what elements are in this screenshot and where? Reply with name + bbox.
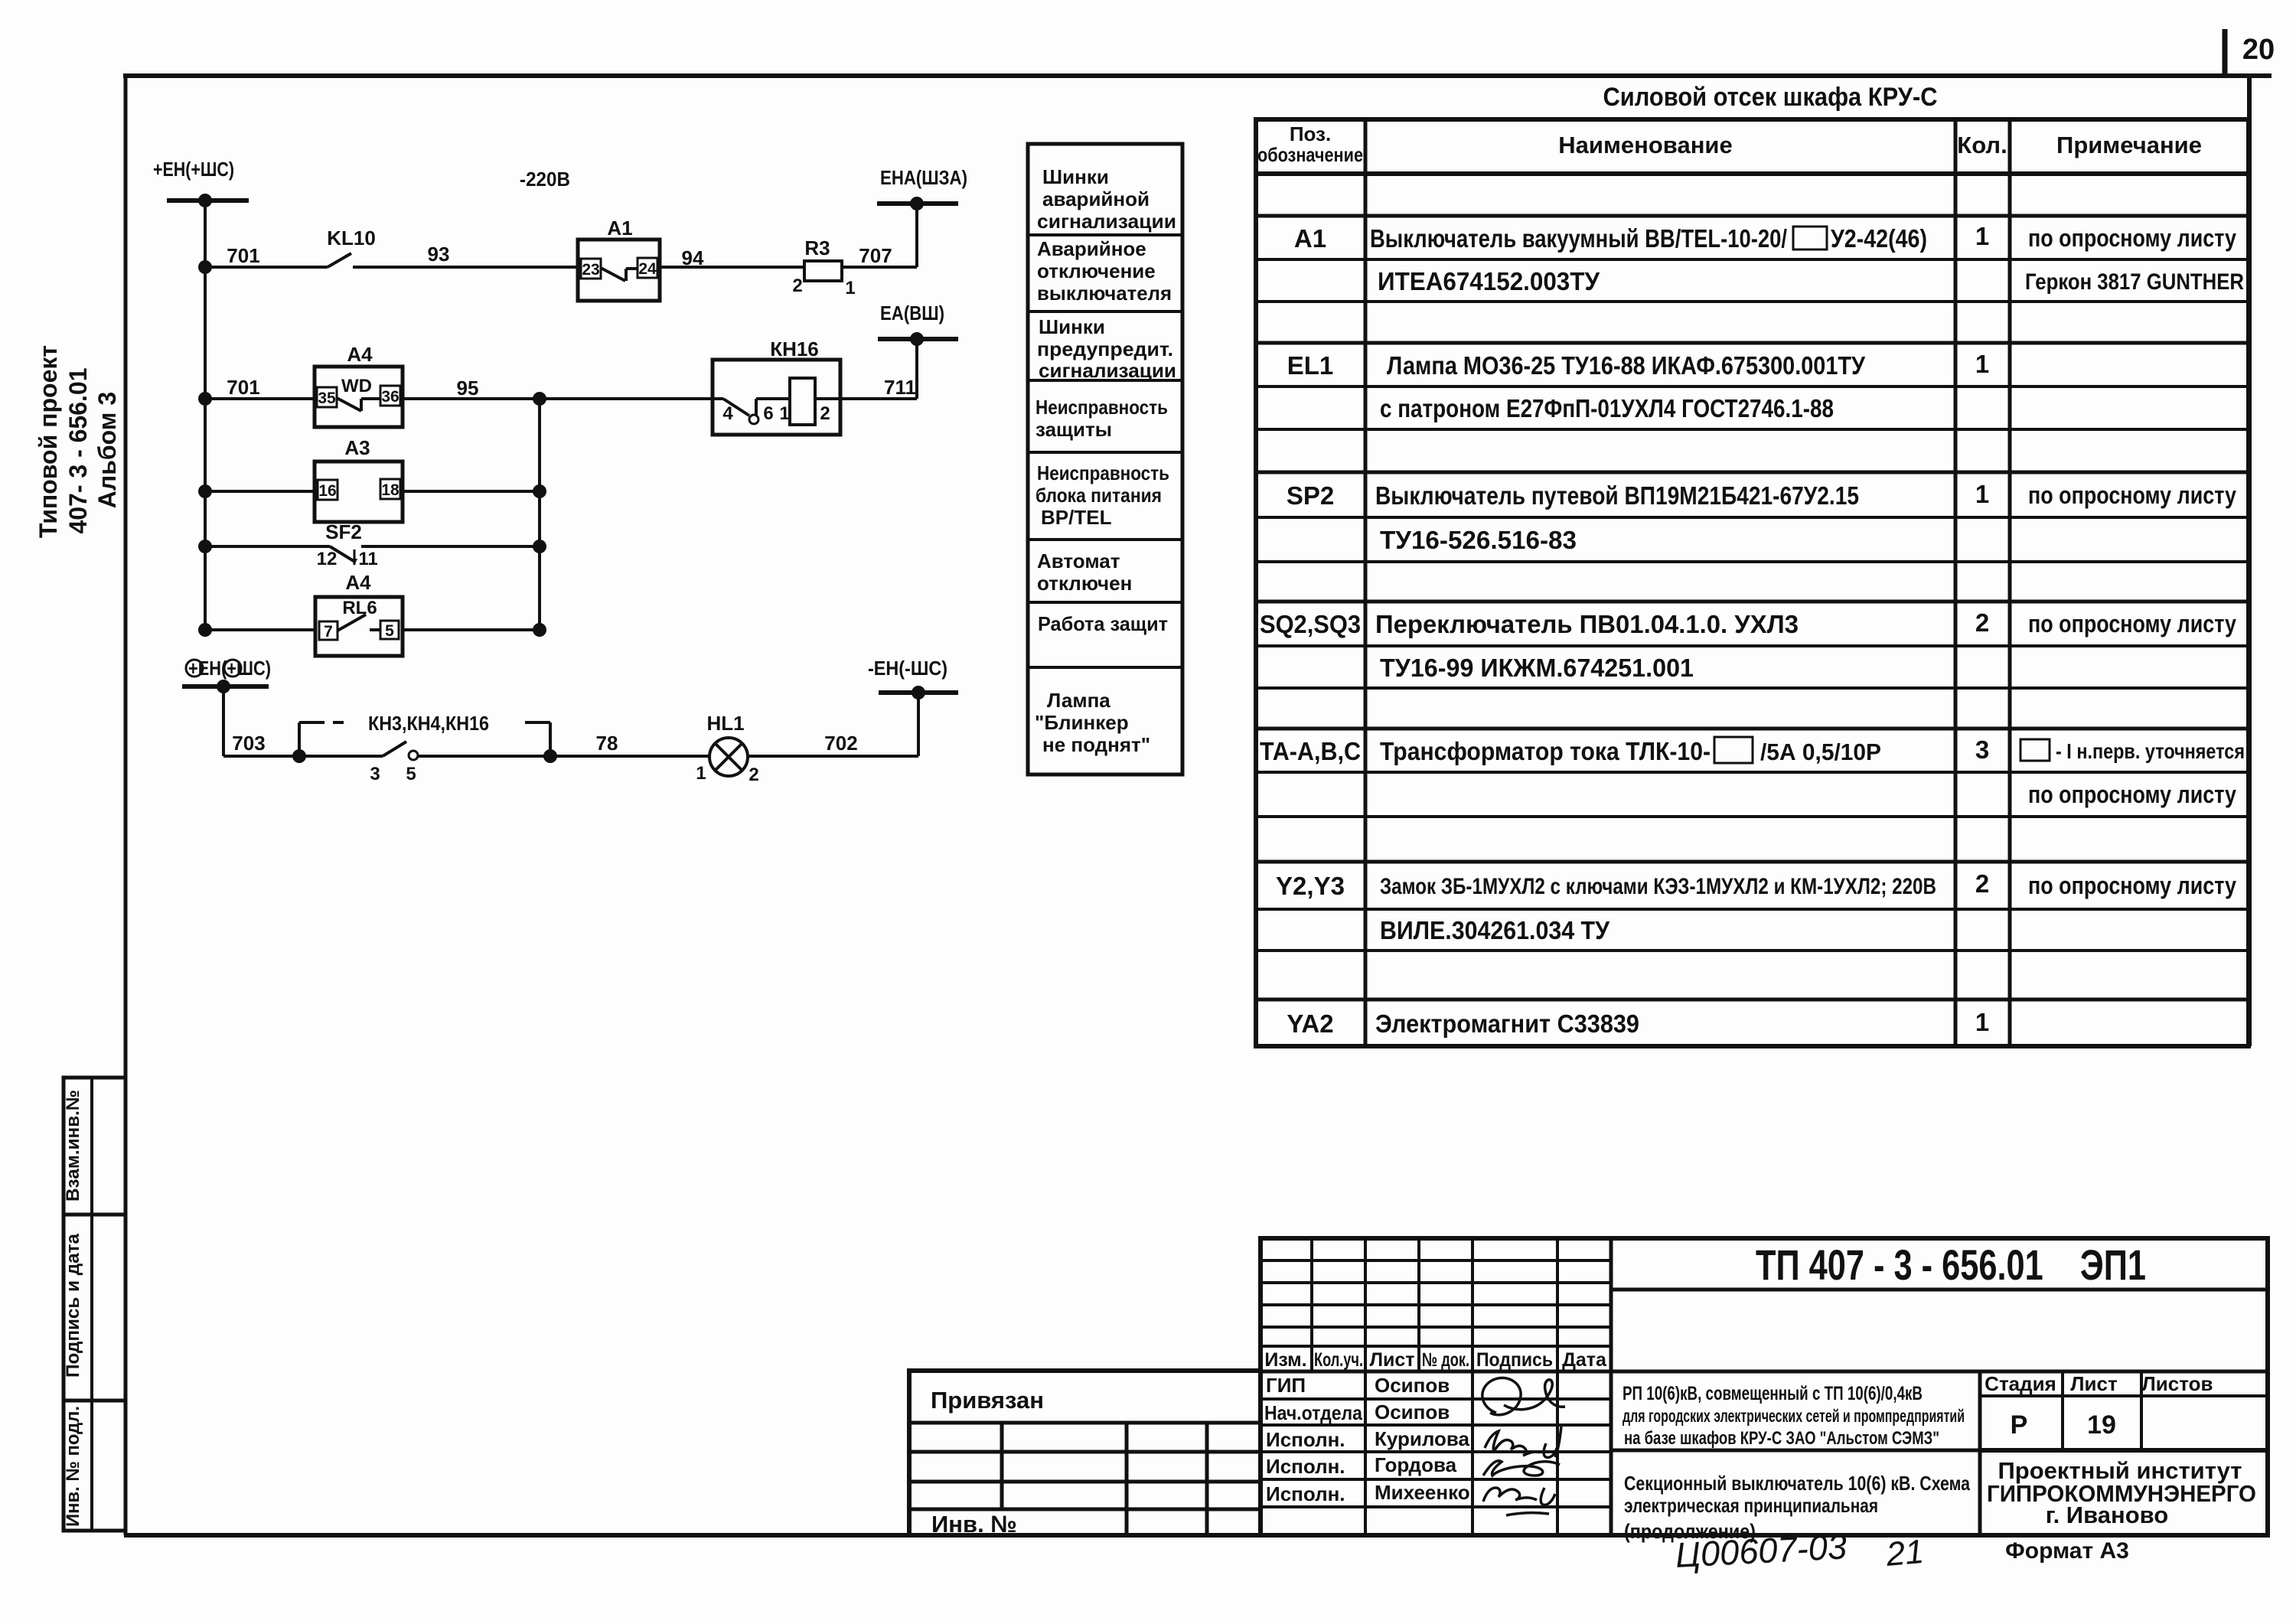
svg-text:BP/TEL: BP/TEL [1041, 506, 1112, 529]
header texts [1257, 122, 2202, 166]
svg-text:16: 16 [318, 482, 336, 500]
svg-text:36: 36 [381, 388, 399, 406]
svg-text:4: 4 [722, 403, 733, 424]
svg-text:23: 23 [582, 261, 599, 279]
svg-text:защиты: защиты [1035, 418, 1112, 441]
revision header row [1264, 1349, 1607, 1371]
legend cell 6 [1037, 549, 1132, 595]
wire riser to ЕНА bus [915, 204, 918, 267]
svg-text:19: 19 [2087, 1410, 2116, 1440]
bottom border [124, 1533, 2269, 1538]
wire 701 row1 [205, 266, 328, 269]
svg-text:SQ2,SQ3: SQ2,SQ3 [1260, 610, 1361, 638]
svg-text:сигнализации: сигнализации [1039, 359, 1176, 382]
svg-text:ТА-А,В,С: ТА-А,В,С [1260, 737, 1361, 765]
svg-text:не поднят": не поднят" [1042, 733, 1150, 756]
wire 703 [223, 755, 299, 758]
svg-text:Секционный выключатель 10(6) к: Секционный выключатель 10(6) кВ. Схема [1624, 1472, 1970, 1495]
svg-text:701: 701 [227, 376, 259, 399]
LEFT_SIDEBAR [63, 1078, 126, 1531]
svg-text:3: 3 [370, 764, 380, 784]
table row lines [1256, 174, 2249, 1000]
svg-text:707: 707 [859, 244, 892, 267]
svg-text:Инв. №: Инв. № [931, 1511, 1017, 1538]
привязан column lines [1002, 1423, 1207, 1535]
wire row3 left [205, 490, 315, 493]
svg-text:Автомат: Автомат [1037, 549, 1120, 572]
legend cell 3 [1037, 315, 1176, 382]
breaker contact SF2 [317, 520, 378, 569]
svg-text:Альбом 3: Альбом 3 [93, 392, 121, 508]
svg-text:предупредит.: предупредит. [1037, 338, 1173, 360]
svg-text:Листов: Листов [2142, 1372, 2213, 1395]
terminal block A3 [315, 436, 403, 522]
svg-text:ТП 407 - 3 - 656.01 ЭП1: ТП 407 - 3 - 656.01 ЭП1 [1756, 1241, 2146, 1289]
svg-text:Работа защит: Работа защит [1038, 612, 1168, 635]
junction middle vertical top [533, 392, 546, 406]
wire riser 703 [222, 686, 225, 756]
svg-text:А1: А1 [607, 217, 632, 240]
svg-text:ИТЕА674152.003ТУ: ИТЕА674152.003ТУ [1378, 267, 1600, 295]
svg-text:701: 701 [227, 244, 259, 267]
svg-text:Выключатель вакуумный ВВ/TEL-1: Выключатель вакуумный ВВ/TEL-10-20/ [1370, 224, 1787, 253]
svg-text:2: 2 [1975, 608, 1989, 637]
svg-text:Кол.: Кол. [1957, 132, 2007, 158]
svg-text:КН3,КН4,КН16: КН3,КН4,КН16 [368, 712, 489, 735]
right border of schedule area [2247, 76, 2252, 1046]
legend cell 1 [1037, 165, 1176, 233]
svg-text:2: 2 [1975, 869, 1989, 898]
contact КН3,КН4,КН16 [299, 712, 489, 784]
svg-text:по опросному листу: по опросному листу [2028, 610, 2236, 638]
svg-text:Электромагнит С33839: Электромагнит С33839 [1375, 1009, 1639, 1038]
svg-text:Подпись: Подпись [1476, 1349, 1553, 1371]
signature squiggle Осипов [1482, 1378, 1565, 1414]
sidebar box [64, 1078, 126, 1531]
svg-text:Привязан: Привязан [931, 1387, 1044, 1414]
svg-text:ГИП: ГИП [1266, 1374, 1306, 1397]
revision grid [1261, 1238, 1611, 1535]
svg-text:Замок ЗБ-1МУХЛ2 с ключами КЭЗ-: Замок ЗБ-1МУХЛ2 с ключами КЭЗ-1МУХЛ2 и К… [1380, 874, 1936, 899]
svg-text:HL1: HL1 [706, 712, 744, 735]
LEGEND_TABLE [1028, 144, 1182, 774]
svg-text:блока питания: блока питания [1035, 484, 1162, 507]
svg-text:1: 1 [1975, 350, 1989, 378]
svg-text:Аварийное: Аварийное [1037, 237, 1146, 260]
TITLE_BLOCK [1261, 1238, 2268, 1564]
svg-text:Трансформатор тока ТЛК-10-: Трансформатор тока ТЛК-10- [1380, 737, 1711, 765]
signature rows labels [1264, 1374, 1362, 1505]
wire 701 row2 [205, 397, 315, 400]
legend cell 2 [1037, 237, 1172, 305]
svg-text:Неисправность: Неисправность [1035, 396, 1168, 419]
svg-text:94: 94 [682, 246, 704, 269]
signature rows names [1375, 1374, 1470, 1504]
wire 702 [748, 755, 918, 758]
col3 quantities [1975, 222, 1989, 1036]
svg-text:по опросному листу: по опросному листу [2028, 781, 2236, 808]
svg-text:EL1: EL1 [1287, 351, 1334, 380]
привязан outer box [909, 1371, 1261, 1535]
wire riser to ЕА bus [915, 339, 918, 399]
svg-text:с патроном Е27ФпП-01УХЛ4 ГОСТ: с патроном Е27ФпП-01УХЛ4 ГОСТ2746.1-88 [1380, 394, 1834, 422]
table outer box [1256, 119, 2249, 1046]
svg-text:18: 18 [381, 481, 400, 499]
svg-text:Лист: Лист [2070, 1372, 2118, 1395]
junction row4 right [533, 540, 546, 553]
svg-text:Кол.уч.: Кол.уч. [1314, 1349, 1363, 1371]
привязан row lines [909, 1423, 1261, 1509]
svg-text:У2-42(46): У2-42(46) [1831, 224, 1927, 253]
svg-text:"Блинкер: "Блинкер [1035, 711, 1129, 734]
svg-text:отключен: отключен [1037, 572, 1132, 595]
node +ЕН(+ШС) bottom bus [182, 657, 271, 693]
wire 93 [353, 266, 578, 269]
svg-text:KL10: KL10 [327, 227, 376, 249]
svg-text:2: 2 [792, 276, 802, 296]
svg-text:по опросному листу: по опросному листу [2028, 872, 2236, 899]
svg-text:RL6: RL6 [342, 598, 377, 618]
stamp outer box [1261, 1238, 2268, 1535]
svg-text:А4: А4 [345, 571, 371, 594]
svg-text:Силовой отсек шкафа КРУ-С: Силовой отсек шкафа КРУ-С [1603, 83, 1938, 112]
svg-text:-ЕН(-ШС): -ЕН(-ШС) [868, 657, 947, 680]
svg-text:-220В: -220В [520, 168, 570, 191]
svg-text:WD: WD [341, 376, 372, 396]
svg-text:Исполн.: Исполн. [1266, 1455, 1345, 1478]
HANDWRITTEN_NOTE [1675, 1526, 1926, 1575]
svg-text:93: 93 [428, 243, 450, 266]
svg-text:электрическая принципиальная: электрическая принципиальная [1624, 1494, 1878, 1517]
svg-text:Стадия: Стадия [1985, 1372, 2056, 1395]
junction row4 [198, 540, 212, 553]
svg-text:ВИЛЕ.304261.034 ТУ: ВИЛЕ.304261.034 ТУ [1380, 916, 1609, 944]
стадия block [1980, 1371, 2268, 1450]
svg-text:- I н.перв. уточняется: - I н.перв. уточняется [2056, 739, 2245, 763]
svg-text:1: 1 [1975, 480, 1989, 508]
svg-text:КН16: КН16 [770, 338, 819, 360]
svg-text:А3: А3 [344, 436, 370, 459]
svg-text:Геркон 3817 GUNTHER: Геркон 3817 GUNTHER [2025, 269, 2244, 295]
svg-text:Лампа: Лампа [1047, 689, 1110, 712]
wire 78 [418, 755, 709, 758]
relay contact block A4 WD [315, 343, 403, 427]
svg-text:РП 10(6)кВ, совмещенный с ТП 1: РП 10(6)кВ, совмещенный с ТП 10(6)/0,4кВ [1623, 1383, 1923, 1404]
svg-text:702: 702 [824, 732, 857, 755]
wire left vertical bus 701 [204, 201, 207, 630]
relay contact block A1 [578, 217, 660, 301]
node -ЕН(-ШС) bus [868, 657, 958, 699]
wire 94 [660, 266, 804, 269]
svg-text:R3: R3 [804, 236, 830, 259]
top border [123, 73, 2272, 78]
svg-text:1: 1 [1975, 222, 1989, 250]
svg-text:ТУ16-99 ИКЖМ.674251.001: ТУ16-99 ИКЖМ.674251.001 [1380, 654, 1694, 682]
svg-text:Гордова: Гордова [1375, 1453, 1457, 1476]
svg-text:/5А 0,5/10Р: /5А 0,5/10Р [1760, 739, 1881, 765]
svg-text:6: 6 [763, 403, 773, 424]
wire row4 left [205, 545, 330, 548]
legend box [1028, 144, 1182, 774]
bracket right [525, 722, 557, 763]
svg-text:Формат А3: Формат А3 [2005, 1538, 2129, 1564]
signature squiggle Курилова [1485, 1427, 1561, 1457]
MAIN_TABLE [1256, 83, 2249, 1046]
svg-text:Шинки: Шинки [1039, 315, 1105, 338]
svg-text:24: 24 [638, 260, 657, 278]
svg-text:21: 21 [1884, 1533, 1926, 1573]
svg-text:Y2,Y3: Y2,Y3 [1276, 872, 1345, 900]
svg-text:Нач.отдела: Нач.отдела [1264, 1401, 1362, 1424]
junction bottom left [292, 749, 306, 763]
svg-text:Дата: Дата [1562, 1349, 1607, 1371]
svg-text:703: 703 [232, 732, 265, 755]
svg-text:2: 2 [820, 403, 830, 424]
svg-text:отключение: отключение [1037, 259, 1156, 282]
svg-text:Осипов: Осипов [1375, 1401, 1450, 1423]
svg-text:5: 5 [385, 622, 394, 640]
wire 95 [403, 397, 713, 400]
svg-text:Михеенко: Михеенко [1375, 1481, 1470, 1504]
svg-text:Переключатель ПВ01.04.1.0. УХЛ: Переключатель ПВ01.04.1.0. УХЛ3 [1375, 610, 1799, 638]
sidebar inner vertical [90, 1078, 93, 1531]
relay KH16 [713, 338, 840, 435]
svg-text:на базе шкафов КРУ-С ЗАО "Альс: на базе шкафов КРУ-С ЗАО "Альстом СЭМЗ" [1624, 1428, 1939, 1449]
svg-text:Осипов: Осипов [1375, 1374, 1450, 1397]
legend cell 5 [1035, 461, 1169, 529]
legend dividers [1028, 235, 1182, 667]
svg-text:Лист: Лист [1369, 1349, 1414, 1371]
signature squiggle Гордова [1483, 1461, 1560, 1476]
signature squiggle Михеенко [1483, 1488, 1555, 1515]
svg-text:1: 1 [1975, 1008, 1989, 1036]
svg-text:А4: А4 [347, 343, 373, 366]
wire riser to -ЕН bus [917, 693, 920, 756]
svg-text:ТУ16-526.516-83: ТУ16-526.516-83 [1380, 526, 1577, 554]
svg-text:сигнализации: сигнализации [1037, 210, 1176, 233]
junction row3 right [533, 484, 546, 498]
svg-text:2: 2 [748, 765, 758, 785]
left border [124, 76, 128, 1535]
svg-text:ЕА(ВШ): ЕА(ВШ) [880, 302, 944, 324]
node +EH(+ШС) bus [153, 158, 249, 207]
legend cell 8 [1035, 689, 1150, 756]
svg-text:407- 3 - 656.01: 407- 3 - 656.01 [64, 367, 92, 533]
svg-text:78: 78 [596, 732, 618, 755]
svg-text:Курилова: Курилова [1375, 1427, 1470, 1450]
institute name [1987, 1457, 2256, 1528]
svg-text:для городских электрических се: для городских электрических сетей и пром… [1623, 1406, 1965, 1426]
relay contact block A4 RL6 [315, 571, 403, 656]
svg-text:обозначение: обозначение [1257, 143, 1363, 166]
svg-text:1: 1 [845, 278, 855, 298]
svg-text:Поз.: Поз. [1290, 122, 1331, 145]
stamp main lines [1261, 1238, 2268, 1535]
svg-text:Типовой проект: Типовой проект [34, 345, 62, 538]
svg-text:по опросному листу: по опросному листу [2028, 481, 2236, 509]
LEFT_MARGIN_TITLE [34, 345, 121, 538]
node ЕНА(ШЗА) bus [877, 166, 967, 210]
junction row3 [198, 484, 212, 498]
svg-text:Р: Р [2011, 1410, 2028, 1440]
svg-text:г. Иваново: г. Иваново [2046, 1502, 2168, 1528]
svg-text:Неисправность: Неисправность [1037, 461, 1169, 484]
node ЕА(ВШ) bus [878, 302, 958, 346]
svg-text:№ док.: № док. [1422, 1349, 1469, 1371]
junction row2 [198, 392, 212, 406]
svg-text:Шинки: Шинки [1042, 165, 1109, 188]
svg-text:5: 5 [406, 764, 416, 784]
svg-text:Исполн.: Исполн. [1266, 1482, 1345, 1505]
project description [1623, 1383, 1965, 1449]
svg-text:по опросному листу: по опросному листу [2028, 224, 2236, 252]
sidebar divider 1 [64, 1213, 126, 1217]
svg-text:Инв. № подл.: Инв. № подл. [63, 1406, 83, 1527]
svg-text:Взам.инв.№: Взам.инв.№ [63, 1090, 83, 1202]
col4 notes [2020, 224, 2245, 899]
wire row5 left [205, 628, 315, 631]
SCHEMATIC [153, 158, 967, 785]
svg-text:+ЕН(+ШС): +ЕН(+ШС) [153, 158, 234, 181]
svg-text:Изм.: Изм. [1264, 1349, 1306, 1371]
svg-text:аварийной: аварийной [1042, 188, 1150, 210]
legend cell 7 [1038, 612, 1168, 635]
svg-text:35: 35 [318, 390, 336, 407]
svg-text:7: 7 [324, 623, 333, 641]
legend cell 4 [1035, 396, 1168, 441]
svg-text:SP2: SP2 [1287, 481, 1334, 510]
svg-text:Исполн.: Исполн. [1266, 1428, 1345, 1451]
wire middle vertical [538, 399, 541, 630]
svg-text:3: 3 [1975, 735, 1989, 764]
svg-text:SF2: SF2 [325, 520, 362, 543]
junction row5 [198, 623, 212, 637]
bracket left [299, 722, 344, 756]
svg-text:ЕНА(ШЗА): ЕНА(ШЗА) [880, 166, 967, 189]
wire row3 right [403, 490, 540, 493]
svg-text:Выключатель путевой ВП19М21Б42: Выключатель путевой ВП19М21Б421-67У2.15 [1375, 481, 1859, 510]
page number tick [2223, 29, 2228, 77]
col2 names [1370, 224, 1936, 1038]
junction row5 right [533, 623, 546, 637]
sheet description [1624, 1472, 1970, 1543]
sidebar divider 2 [64, 1399, 126, 1403]
lamp HL1 [696, 712, 758, 785]
svg-text:Примечание: Примечание [2056, 132, 2202, 158]
svg-text:А1: А1 [1294, 224, 1326, 253]
svg-text:Наименование: Наименование [1558, 132, 1732, 158]
svg-text:1: 1 [696, 763, 706, 784]
svg-text:Подпись и дата: Подпись и дата [63, 1233, 83, 1378]
wire row5 right [403, 628, 540, 631]
svg-text:1: 1 [779, 403, 789, 424]
wire 711 [840, 397, 917, 400]
table column lines [1365, 119, 2010, 1046]
svg-text:YA2: YA2 [1287, 1009, 1333, 1038]
junction row1 [198, 260, 212, 274]
contact KL10 [327, 227, 376, 267]
svg-text:выключателя: выключателя [1037, 282, 1172, 305]
col1 designators [1260, 224, 1361, 1038]
ПРИВЯЗАН_BLOCK [909, 1371, 1261, 1538]
svg-text:11: 11 [358, 549, 377, 569]
svg-text:95: 95 [457, 377, 479, 399]
wire 707 [842, 266, 917, 269]
svg-text:20: 20 [2242, 34, 2275, 66]
svg-text:Лампа МО36-25 ТУ16-88 ИКАФ.675: Лампа МО36-25 ТУ16-88 ИКАФ.675300.001ТУ [1387, 351, 1865, 380]
svg-text:711: 711 [884, 376, 916, 399]
svg-text:12: 12 [317, 549, 338, 569]
wire row4 right [361, 545, 540, 548]
resistor R3 [792, 236, 855, 298]
